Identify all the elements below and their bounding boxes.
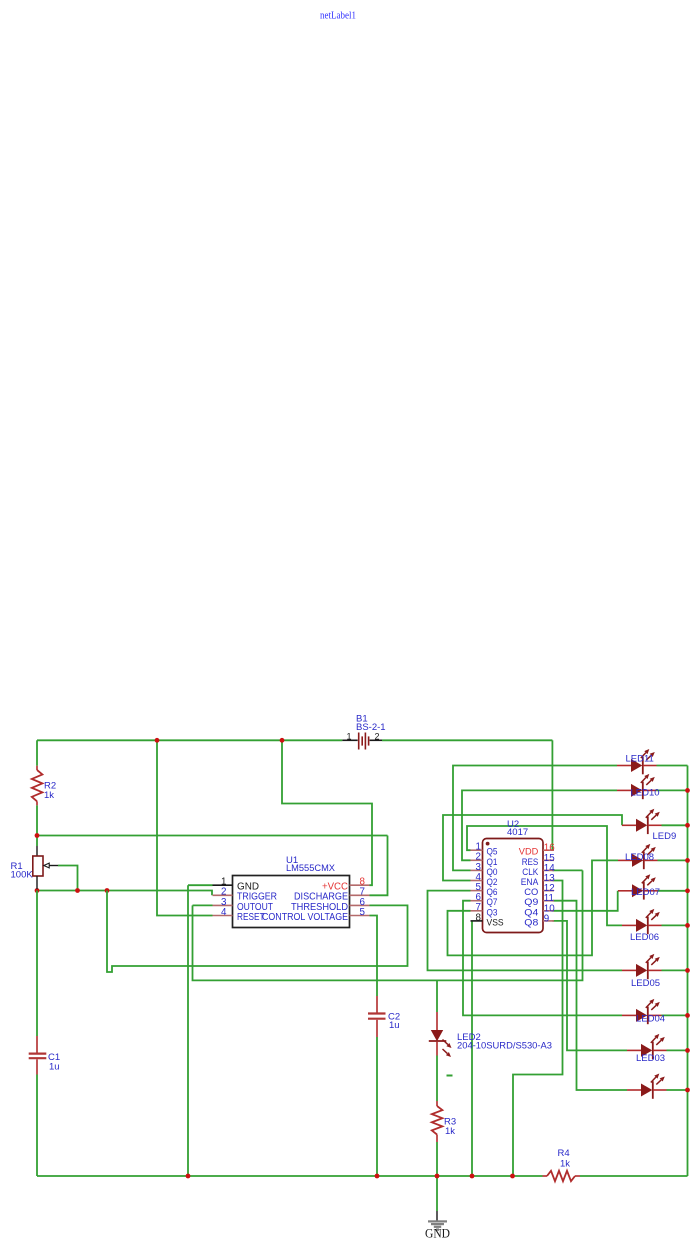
svg-text:ENA: ENA <box>521 877 539 887</box>
svg-text:RESET: RESET <box>237 912 265 923</box>
LED LED10 <box>617 774 660 799</box>
junction trigger-wiper <box>75 888 80 893</box>
wire U1 OUTOUT pin 3 to U2 CLK pin 14 <box>193 870 583 980</box>
wire LED08 cathode to rail <box>658 859 688 861</box>
svg-text:100K: 100K <box>11 870 34 881</box>
battery B1 <box>342 714 385 750</box>
svg-text:Q7: Q7 <box>487 897 498 907</box>
resistor R2 <box>32 766 56 806</box>
wire trigger row to C1 <box>36 891 38 1037</box>
svg-text:Q8: Q8 <box>524 917 538 927</box>
op-amp U1 LM555CMX <box>233 855 350 928</box>
svg-text:RES: RES <box>522 857 539 867</box>
U2 pin 8 VSS <box>471 912 504 927</box>
U2 pin 12 CO <box>524 883 554 897</box>
svg-text:VSS: VSS <box>487 917 504 927</box>
svg-text:1u: 1u <box>49 1062 60 1073</box>
junction C2 - ground rail <box>375 1174 380 1179</box>
svg-text:Q4: Q4 <box>524 907 538 917</box>
wire VCC to U2 VDD pin 16 <box>551 740 553 850</box>
U2 pin 1 Q5 <box>471 842 498 857</box>
wire U2 Q7 pin 6 to LED04 <box>463 901 622 1016</box>
LED LED9 <box>622 809 676 842</box>
svg-text:LED03: LED03 <box>636 1053 665 1064</box>
svg-text:LED08: LED08 <box>625 852 654 863</box>
junction trigger-R1bottom <box>35 888 40 893</box>
wire node A to R1 <box>36 836 38 847</box>
wire LED cathode rail <box>687 766 689 1177</box>
wire U2 Q4 pin 10 to LED07 <box>553 891 618 911</box>
resistor R3 <box>432 1101 456 1142</box>
LED2 minus mark <box>447 1075 453 1077</box>
svg-text:BS-2-1: BS-2-1 <box>356 722 386 733</box>
wire LED10 cathode to rail <box>657 789 688 791</box>
junction VCC-RESET <box>155 738 160 743</box>
U2 pin 5 Q6 <box>471 882 498 897</box>
wire R3 to ground rail <box>436 1142 438 1176</box>
wire VCC rail to R2 <box>36 740 38 765</box>
junction cathode rail LED04 <box>685 1013 690 1018</box>
svg-text:9: 9 <box>544 913 549 924</box>
U2 pin 13 ENA <box>521 873 556 887</box>
wire VCC to U1 RESET pin 4 <box>157 740 213 915</box>
wire U2 Q9 pin 11 to LED02 <box>553 901 628 1090</box>
wire LED05 cathode to rail <box>662 969 688 971</box>
svg-text:1k: 1k <box>560 1159 570 1170</box>
U1 pin 1 GND <box>213 877 260 893</box>
svg-text:netLabel1: netLabel1 <box>320 11 356 22</box>
junction cathode rail LED06 <box>685 923 690 928</box>
wire R2 bottom to node A <box>36 805 38 835</box>
svg-text:LED04: LED04 <box>636 1014 665 1025</box>
wire U2 Q5 pin 1 to LED06 <box>467 826 622 925</box>
LED LED2 <box>429 1012 552 1057</box>
svg-text:LM555CMX: LM555CMX <box>286 863 336 874</box>
LED LED11 <box>617 749 657 774</box>
LED LED07 <box>618 874 660 899</box>
wire LED06 cathode to rail <box>662 924 688 926</box>
svg-text:1u: 1u <box>389 1020 400 1031</box>
wire LED03 cathode to rail <box>667 1049 688 1051</box>
svg-text:CLK: CLK <box>522 867 539 877</box>
LED LED02b <box>627 1074 667 1099</box>
wire R1 wiper to trigger row <box>58 866 78 891</box>
U2 pin 10 Q4 <box>524 903 555 917</box>
counter U2 4017 <box>483 819 544 933</box>
wire node A to U1 DISCHARGE pin 7 <box>37 836 388 896</box>
U1 pin 6 THRESHOLD <box>291 897 370 913</box>
ground <box>425 1211 450 1241</box>
U1 pin 3 OUTOUT <box>213 897 274 913</box>
junction VSS - ground rail <box>470 1174 475 1179</box>
capacitor C2 <box>368 996 400 1037</box>
junction cathode rail LED10 <box>685 788 690 793</box>
svg-text:Q5: Q5 <box>487 847 498 857</box>
wire U2 VSS pin 8 to ground rail <box>471 921 473 1176</box>
junction VCC-U1pin8 <box>280 738 285 743</box>
wire U2 ENA pin 13 to ground rail <box>513 881 563 1177</box>
junction cathode rail LED07 <box>685 888 690 893</box>
U2 pin 16 VDD <box>519 843 555 857</box>
LED LED05 <box>622 954 662 989</box>
wire U2 Q6 pin 5 to LED05 <box>428 891 623 971</box>
junction cathode rail LED03 <box>685 1048 690 1053</box>
wire trigger row to U1 TRIGGER pin 2 <box>37 891 212 896</box>
U1 pin 4 RESET <box>213 907 266 923</box>
svg-text:Q0: Q0 <box>487 867 498 877</box>
svg-text:1k: 1k <box>445 1126 455 1137</box>
LED LED04 <box>622 999 665 1025</box>
junction node A <box>35 833 40 838</box>
U2 pin 2 Q1 <box>471 852 498 867</box>
svg-text:Q2: Q2 <box>487 877 498 887</box>
wire LED04 cathode to rail <box>662 1014 688 1016</box>
wire VCC to U1 +VCC pin 8 <box>282 740 372 885</box>
U2 pin 15 RES <box>522 853 556 867</box>
svg-text:1k: 1k <box>44 790 54 801</box>
svg-text:5: 5 <box>360 907 366 918</box>
wire C1 to ground rail <box>36 1075 38 1177</box>
wire LED02b cathode to rail <box>667 1089 688 1091</box>
wire LED9 cathode to rail <box>662 824 688 826</box>
LED LED08 <box>618 844 658 869</box>
svg-text:CO: CO <box>524 887 538 897</box>
svg-text:LED05: LED05 <box>631 978 660 989</box>
wire LED07 cathode to rail <box>658 890 688 892</box>
wire VCC rail top right <box>382 739 552 741</box>
junction cathode rail LED02b <box>685 1088 690 1093</box>
resistor R4 <box>543 1148 581 1181</box>
svg-text:4: 4 <box>221 907 227 918</box>
svg-text:204-10SURD/S530-A3: 204-10SURD/S530-A3 <box>457 1041 552 1052</box>
wire U2 Q3 pin 7 to LED08 <box>448 860 619 955</box>
svg-text:Q3: Q3 <box>487 907 498 917</box>
junction R3 - ground rail <box>435 1174 440 1179</box>
U2 pin 3 Q0 <box>471 862 498 877</box>
svg-text:1: 1 <box>346 732 351 742</box>
svg-text:8: 8 <box>476 912 482 923</box>
svg-text:2: 2 <box>374 732 379 742</box>
junction cathode rail LED9 <box>685 823 690 828</box>
wire ground rail left <box>37 1175 543 1177</box>
svg-text:VDD: VDD <box>519 847 539 857</box>
svg-text:R4: R4 <box>558 1148 570 1159</box>
U1 pin 7 DISCHARGE <box>294 887 370 903</box>
wire LED11 cathode to rail <box>657 765 688 767</box>
potentiometer R1 <box>11 846 59 889</box>
junction cathode rail LED08 <box>685 858 690 863</box>
U2 pin 11 Q9 <box>524 893 554 907</box>
svg-text:LED07: LED07 <box>631 887 660 898</box>
U1 pin 8 +VCC <box>322 877 370 893</box>
wire U2 Q2 pin 4 to LED9 <box>443 815 622 881</box>
svg-text:LED06: LED06 <box>630 932 659 943</box>
wire U2 Q8 pin 9 to LED03 <box>553 921 628 1051</box>
U2 pin 6 Q7 <box>471 892 498 907</box>
svg-text:Q6: Q6 <box>487 887 498 897</box>
svg-text:Q9: Q9 <box>524 897 538 907</box>
svg-text:LED10: LED10 <box>631 788 660 799</box>
wire threshold net <box>107 891 408 973</box>
wire ground rail to GND symbol <box>436 1176 438 1211</box>
junction trigger-threshold branch <box>105 888 110 893</box>
capacitor C1 <box>29 1036 60 1075</box>
wire C2 to ground rail <box>376 1037 378 1176</box>
svg-text:LED11: LED11 <box>626 754 654 765</box>
svg-text:LED9: LED9 <box>653 831 677 842</box>
U1 pin 5 CONTROL VOLTAGE <box>262 907 370 923</box>
wire VCC rail top left <box>37 739 342 741</box>
svg-text:Q1: Q1 <box>487 857 498 867</box>
U2 pin 4 Q2 <box>471 872 498 887</box>
LED LED06 <box>622 909 662 943</box>
U1 pin 2 TRIGGER <box>213 887 278 903</box>
wire U1 GND pin 1 to ground rail <box>188 885 213 1176</box>
svg-text:CONTROL VOLTAGE: CONTROL VOLTAGE <box>262 912 348 923</box>
junction ENA - ground rail <box>510 1174 515 1179</box>
wire U1 CONTROL VOLTAGE pin 5 to C2 <box>370 916 378 997</box>
svg-text:GND: GND <box>425 1226 450 1241</box>
U2 pin 7 Q3 <box>471 902 498 917</box>
svg-text:4017: 4017 <box>507 827 528 838</box>
wire ground rail right of R4 <box>580 1175 688 1177</box>
LED LED03 <box>627 1034 667 1064</box>
wire LED2 cathode to R3 <box>436 1056 438 1102</box>
wire OUT branch to LED2 <box>436 980 438 1012</box>
wire U2 Q0 pin 3 to LED11 <box>453 766 617 871</box>
wire U2 Q1 pin 2 to LED10 <box>462 790 617 860</box>
U2 pin 9 Q8 <box>524 913 554 927</box>
U2 pin 14 CLK <box>522 863 555 877</box>
junction U1 GND - ground rail <box>186 1174 191 1179</box>
junction cathode rail LED05 <box>685 968 690 973</box>
